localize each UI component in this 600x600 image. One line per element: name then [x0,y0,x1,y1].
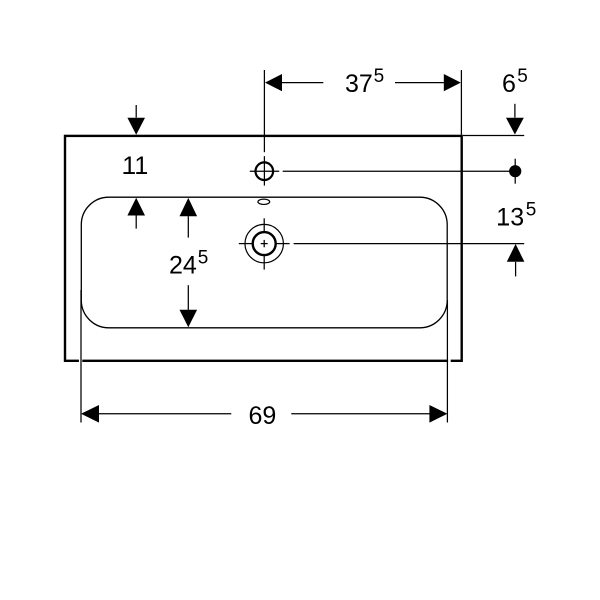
svg-text:5: 5 [526,199,537,220]
svg-text:5: 5 [198,247,209,268]
svg-text:37: 37 [345,70,373,98]
svg-text:5: 5 [374,66,385,87]
svg-text:13: 13 [496,203,524,231]
svg-text:6: 6 [502,70,516,98]
svg-text:24: 24 [169,252,197,280]
svg-text:5: 5 [517,66,528,87]
svg-text:11: 11 [122,152,148,180]
svg-text:69: 69 [249,402,277,430]
